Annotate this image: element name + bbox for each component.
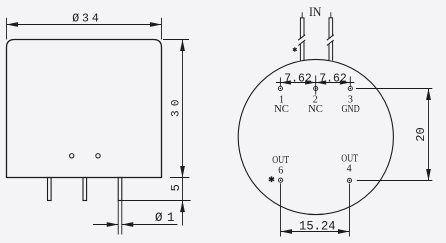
dim 15.24 extension line right: [349, 184, 351, 237]
asterisk mark at input lead: [293, 47, 297, 51]
svg-text:7.62: 7.62: [319, 71, 347, 85]
input lead right: sleeve lower part: [329, 41, 333, 61]
svg-text:OUT: OUT: [272, 155, 289, 166]
dim 30/5 extension line middle (body bottom): [170, 177, 189, 179]
input lead right: wire: [330, 12, 332, 18]
svg-text:6: 6: [278, 166, 283, 177]
dim 15.24 arrow right: [338, 229, 350, 234]
dim O34 arrow left: [7, 22, 19, 27]
svg-text:NC: NC: [274, 103, 289, 115]
pin 2 side view: [83, 178, 87, 201]
dim O34 extension line right: [161, 18, 163, 40]
svg-text:GND: GND: [341, 103, 359, 115]
mounting hole left: [70, 154, 74, 158]
module body (side view): [7, 40, 162, 178]
dim O1 extension line left (pin edge): [117, 201, 119, 235]
dim 15.24 dimension line: [281, 231, 350, 233]
svg-text:30: 30: [171, 100, 183, 118]
dim 7.62 extension tick pin2: [315, 76, 317, 95]
mounting hole right: [96, 154, 100, 158]
dim O1 leader left segment: [93, 224, 118, 226]
pin 1 (bottom view): [278, 86, 282, 90]
dim 7.62 arrow at pin1: [280, 80, 291, 84]
dim 7.62 extension tick pin3: [349, 77, 351, 86]
dim O34 dimension line: [7, 24, 162, 26]
module body (bottom view circle): [238, 59, 393, 214]
dim 15.24 arrow left: [281, 229, 293, 234]
svg-text:IN: IN: [309, 4, 322, 19]
dim 30 extension line top: [163, 39, 189, 41]
dim 20 vertical dimension line: [428, 89, 430, 181]
asterisk mark at pin 6: [269, 176, 274, 182]
pin 2 (bottom view): [314, 86, 318, 90]
dim 30 arrow bottom: [180, 166, 185, 178]
input lead right: lower break diagonal: [327, 40, 334, 46]
dim 5 extension line bottom (pin tips): [122, 200, 191, 202]
dim 30 arrow top: [180, 40, 185, 52]
pin 6 (bottom view): [279, 178, 283, 182]
dim 7.62 dimension line: [276, 82, 354, 84]
dim 15.24 extension line left: [280, 183, 282, 236]
input lead left: wire: [301, 12, 303, 18]
dim 7.62 arrows at pin2: [305, 80, 316, 84]
svg-text:5: 5: [169, 184, 183, 191]
dim O1 arrow right: [122, 222, 134, 227]
dim 7.62 extension tick pin1: [279, 77, 281, 86]
pin 3 side view: [118, 178, 122, 201]
input lead left: sleeve upper part: [300, 18, 304, 39]
dim O1 leader right segment: [122, 224, 178, 226]
input lead right: upper break diagonal: [327, 35, 334, 41]
svg-text:Ø34: Ø34: [72, 13, 99, 26]
dim O34 arrow right: [150, 22, 162, 27]
dim 20 arrow top: [426, 89, 431, 101]
input lead left: sleeve lower part: [300, 41, 304, 61]
dim 20 leader from pin 3: [356, 88, 432, 90]
dim O1 arrow left: [107, 222, 119, 227]
input lead left: lower break diagonal: [298, 40, 305, 46]
input lead right: sleeve upper part: [329, 18, 333, 39]
svg-text:7.62: 7.62: [284, 71, 312, 85]
dim 20 arrow bottom: [426, 169, 431, 181]
dim O34 extension line left: [6, 18, 8, 40]
pin 3 (bottom view): [348, 86, 352, 90]
dim O1 extension line right (pin edge): [121, 201, 123, 235]
svg-text:20: 20: [414, 127, 428, 142]
pin 4 (bottom view): [347, 178, 351, 182]
svg-text:Ø1: Ø1: [155, 211, 175, 225]
svg-text:15.24: 15.24: [299, 219, 336, 234]
pin 1 side view: [48, 178, 52, 201]
dim 7.62 arrow at pin3: [340, 80, 351, 84]
svg-text:NC: NC: [308, 103, 323, 115]
input lead left: upper break diagonal: [298, 35, 305, 41]
svg-text:4: 4: [347, 163, 352, 174]
dim 20 leader from pin 4: [357, 180, 433, 182]
dim 5 arrow bottom (outside, pointing up): [180, 201, 185, 213]
dim 30/5 vertical dimension line: [182, 40, 184, 226]
